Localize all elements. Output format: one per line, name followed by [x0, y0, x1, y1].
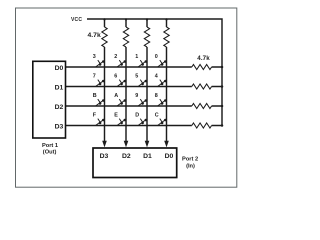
- key label 0: [155, 54, 158, 60]
- key switch 9 (row D2 / column 3): [138, 99, 147, 106]
- label (Out): [43, 150, 57, 156]
- key label B: [93, 93, 97, 99]
- wire column 4 (vertical): [166, 19, 168, 142]
- key label C: [155, 113, 159, 119]
- pin label D3 (Port 2): [100, 153, 109, 160]
- key switch 6 (row D1 / column 2): [117, 80, 126, 87]
- svg-text:D0: D0: [165, 153, 174, 160]
- resistor 4.7k column 2: [123, 27, 128, 47]
- resistor 4.7k row D2 (pull-up to rail): [192, 104, 212, 109]
- key label E: [114, 113, 118, 119]
- svg-text:2: 2: [114, 54, 117, 60]
- svg-text:1: 1: [135, 54, 138, 60]
- svg-text:D3: D3: [100, 153, 109, 160]
- key label F: [93, 113, 97, 119]
- key label 8: [155, 93, 158, 99]
- wire row D0 (horizontal): [66, 66, 223, 68]
- pin label D2 (Port 2): [122, 153, 131, 160]
- svg-text:A: A: [114, 93, 118, 99]
- svg-text:(Out): (Out): [43, 150, 57, 156]
- svg-text:5: 5: [135, 74, 138, 80]
- key label 6: [114, 74, 117, 80]
- svg-text:VCC: VCC: [71, 17, 82, 23]
- svg-text:(In): (In): [186, 163, 195, 169]
- junction top rail / column 4: [165, 18, 167, 20]
- svg-text:0: 0: [155, 54, 158, 60]
- svg-text:C: C: [155, 113, 159, 119]
- key switch 7 (row D1 / column 1): [96, 80, 105, 87]
- pin label D3 (Port 1): [55, 123, 64, 130]
- svg-text:Port 1: Port 1: [42, 143, 58, 149]
- key label 9: [135, 93, 138, 99]
- wire VCC rail (top horizontal + right vertical drop): [87, 19, 222, 126]
- svg-text:3: 3: [93, 54, 96, 60]
- key label 1: [135, 54, 138, 60]
- svg-text:4: 4: [155, 74, 158, 80]
- pin label D1 (Port 2): [143, 153, 152, 160]
- svg-text:D0: D0: [55, 65, 64, 72]
- key switch 3 (row D0 / column 1): [96, 60, 105, 67]
- svg-text:9: 9: [135, 93, 138, 99]
- wire row D2 (horizontal): [66, 105, 223, 107]
- key label 3: [93, 54, 96, 60]
- svg-text:4.7k: 4.7k: [197, 55, 210, 62]
- pin label D0 (Port 2): [165, 153, 174, 160]
- junction top rail / column 3: [146, 18, 148, 20]
- svg-text:6: 6: [114, 74, 117, 80]
- label (In): [186, 163, 195, 169]
- arrow into Port 2 column 4: [164, 141, 169, 148]
- key label 4: [155, 74, 158, 80]
- key switch 1 (row D0 / column 3): [138, 60, 147, 67]
- svg-text:4.7k: 4.7k: [88, 32, 101, 39]
- pin label D2 (Port 1): [55, 104, 64, 111]
- resistor 4.7k column 1: [102, 27, 107, 47]
- svg-text:D2: D2: [55, 104, 64, 111]
- svg-text:D1: D1: [143, 153, 152, 160]
- arrow into Port 2 column 3: [145, 141, 150, 148]
- svg-text:D1: D1: [55, 84, 64, 91]
- key switch A (row D2 / column 2): [117, 99, 126, 106]
- junction top rail / column 1: [103, 18, 105, 20]
- label Port 2: [182, 156, 198, 162]
- resistor 4.7k row D0 (pull-up to rail): [192, 65, 212, 70]
- arrow into Port 2 column 1: [102, 141, 107, 148]
- label Port 1: [42, 143, 58, 149]
- key switch 8 (row D2 / column 4): [158, 99, 167, 106]
- key label 5: [135, 74, 138, 80]
- resistor 4.7k row D1 (pull-up to rail): [192, 84, 212, 89]
- key switch 0 (row D0 / column 4): [158, 60, 167, 67]
- wire column 2 (vertical): [125, 19, 127, 142]
- junction right rail / row D1: [221, 85, 224, 88]
- net label VCC: [71, 17, 82, 23]
- svg-text:Port 2: Port 2: [182, 156, 198, 162]
- junction top rail / column 2: [125, 18, 127, 20]
- resistor 4.7k row D3 (pull-up to rail): [192, 123, 212, 128]
- svg-text:E: E: [114, 113, 118, 119]
- Port 1 box: [33, 61, 66, 138]
- key switch B (row D2 / column 1): [96, 99, 105, 106]
- wire column 3 (vertical): [146, 19, 148, 142]
- Port 2 box: [93, 148, 177, 178]
- key switch F (row D3 / column 1): [96, 119, 105, 126]
- junction right rail / row D0: [221, 66, 224, 69]
- key label 7: [93, 74, 96, 80]
- key label 2: [114, 54, 117, 60]
- key switch 2 (row D0 / column 2): [117, 60, 126, 67]
- key switch 4 (row D1 / column 4): [158, 80, 167, 87]
- svg-text:D: D: [135, 113, 139, 119]
- svg-text:D2: D2: [122, 153, 131, 160]
- value label 4.7k (row pull-ups): [197, 55, 210, 62]
- key label A: [114, 93, 118, 99]
- wire row D1 (horizontal): [66, 86, 223, 88]
- junction right rail / row D3: [221, 124, 224, 127]
- arrow into Port 2 column 2: [124, 141, 129, 148]
- wire row D3 (horizontal): [66, 125, 223, 127]
- svg-text:B: B: [93, 93, 97, 99]
- junction right rail / row D2: [221, 105, 224, 108]
- svg-text:7: 7: [93, 74, 96, 80]
- resistor 4.7k column 4: [164, 27, 169, 47]
- svg-text:8: 8: [155, 93, 158, 99]
- key switch D (row D3 / column 3): [138, 119, 147, 126]
- resistor 4.7k column 3: [144, 27, 149, 47]
- value label 4.7k (column pull-ups): [88, 32, 101, 39]
- svg-text:D3: D3: [55, 123, 64, 130]
- pin label D0 (Port 1): [55, 65, 64, 72]
- key label D: [135, 113, 139, 119]
- wire column 1 (vertical): [104, 19, 106, 142]
- key switch C (row D3 / column 4): [158, 119, 167, 126]
- key switch E (row D3 / column 2): [117, 119, 126, 126]
- key switch 5 (row D1 / column 3): [138, 80, 147, 87]
- pin label D1 (Port 1): [55, 84, 64, 91]
